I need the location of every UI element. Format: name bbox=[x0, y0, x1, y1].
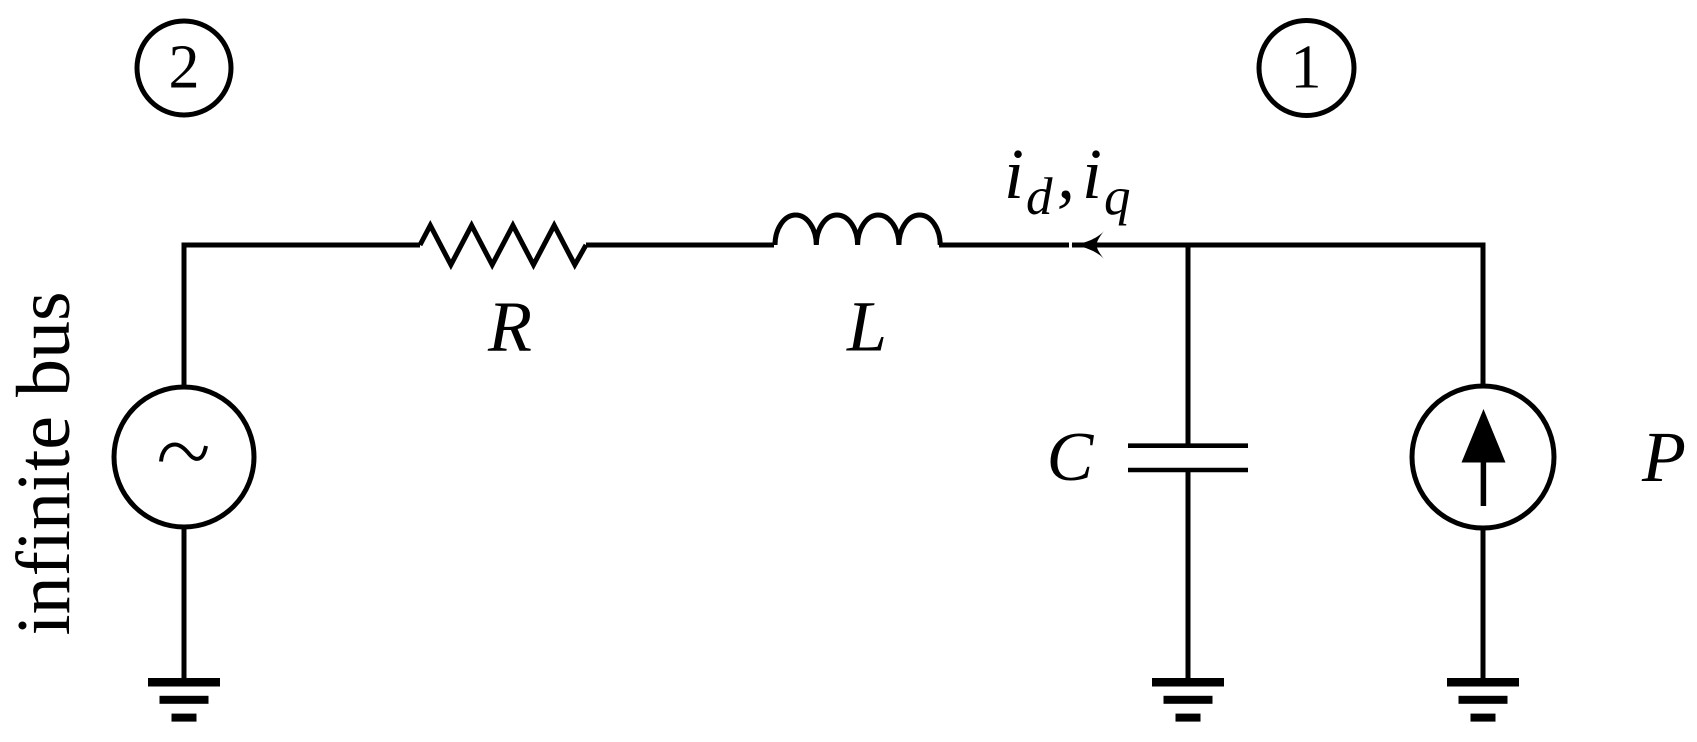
svg-text:C: C bbox=[1047, 419, 1095, 496]
svg-text:R: R bbox=[487, 287, 532, 367]
svg-text:i: i bbox=[1082, 134, 1102, 214]
svg-text:1: 1 bbox=[1291, 34, 1322, 102]
svg-text:i: i bbox=[1004, 134, 1024, 214]
svg-text:2: 2 bbox=[169, 34, 200, 102]
svg-text:P: P bbox=[1641, 417, 1686, 497]
svg-text:d: d bbox=[1026, 168, 1053, 226]
svg-text:,: , bbox=[1057, 134, 1075, 214]
svg-text:q: q bbox=[1104, 168, 1131, 226]
svg-text:infinite bus: infinite bus bbox=[2, 291, 86, 635]
svg-text:L: L bbox=[846, 287, 887, 367]
